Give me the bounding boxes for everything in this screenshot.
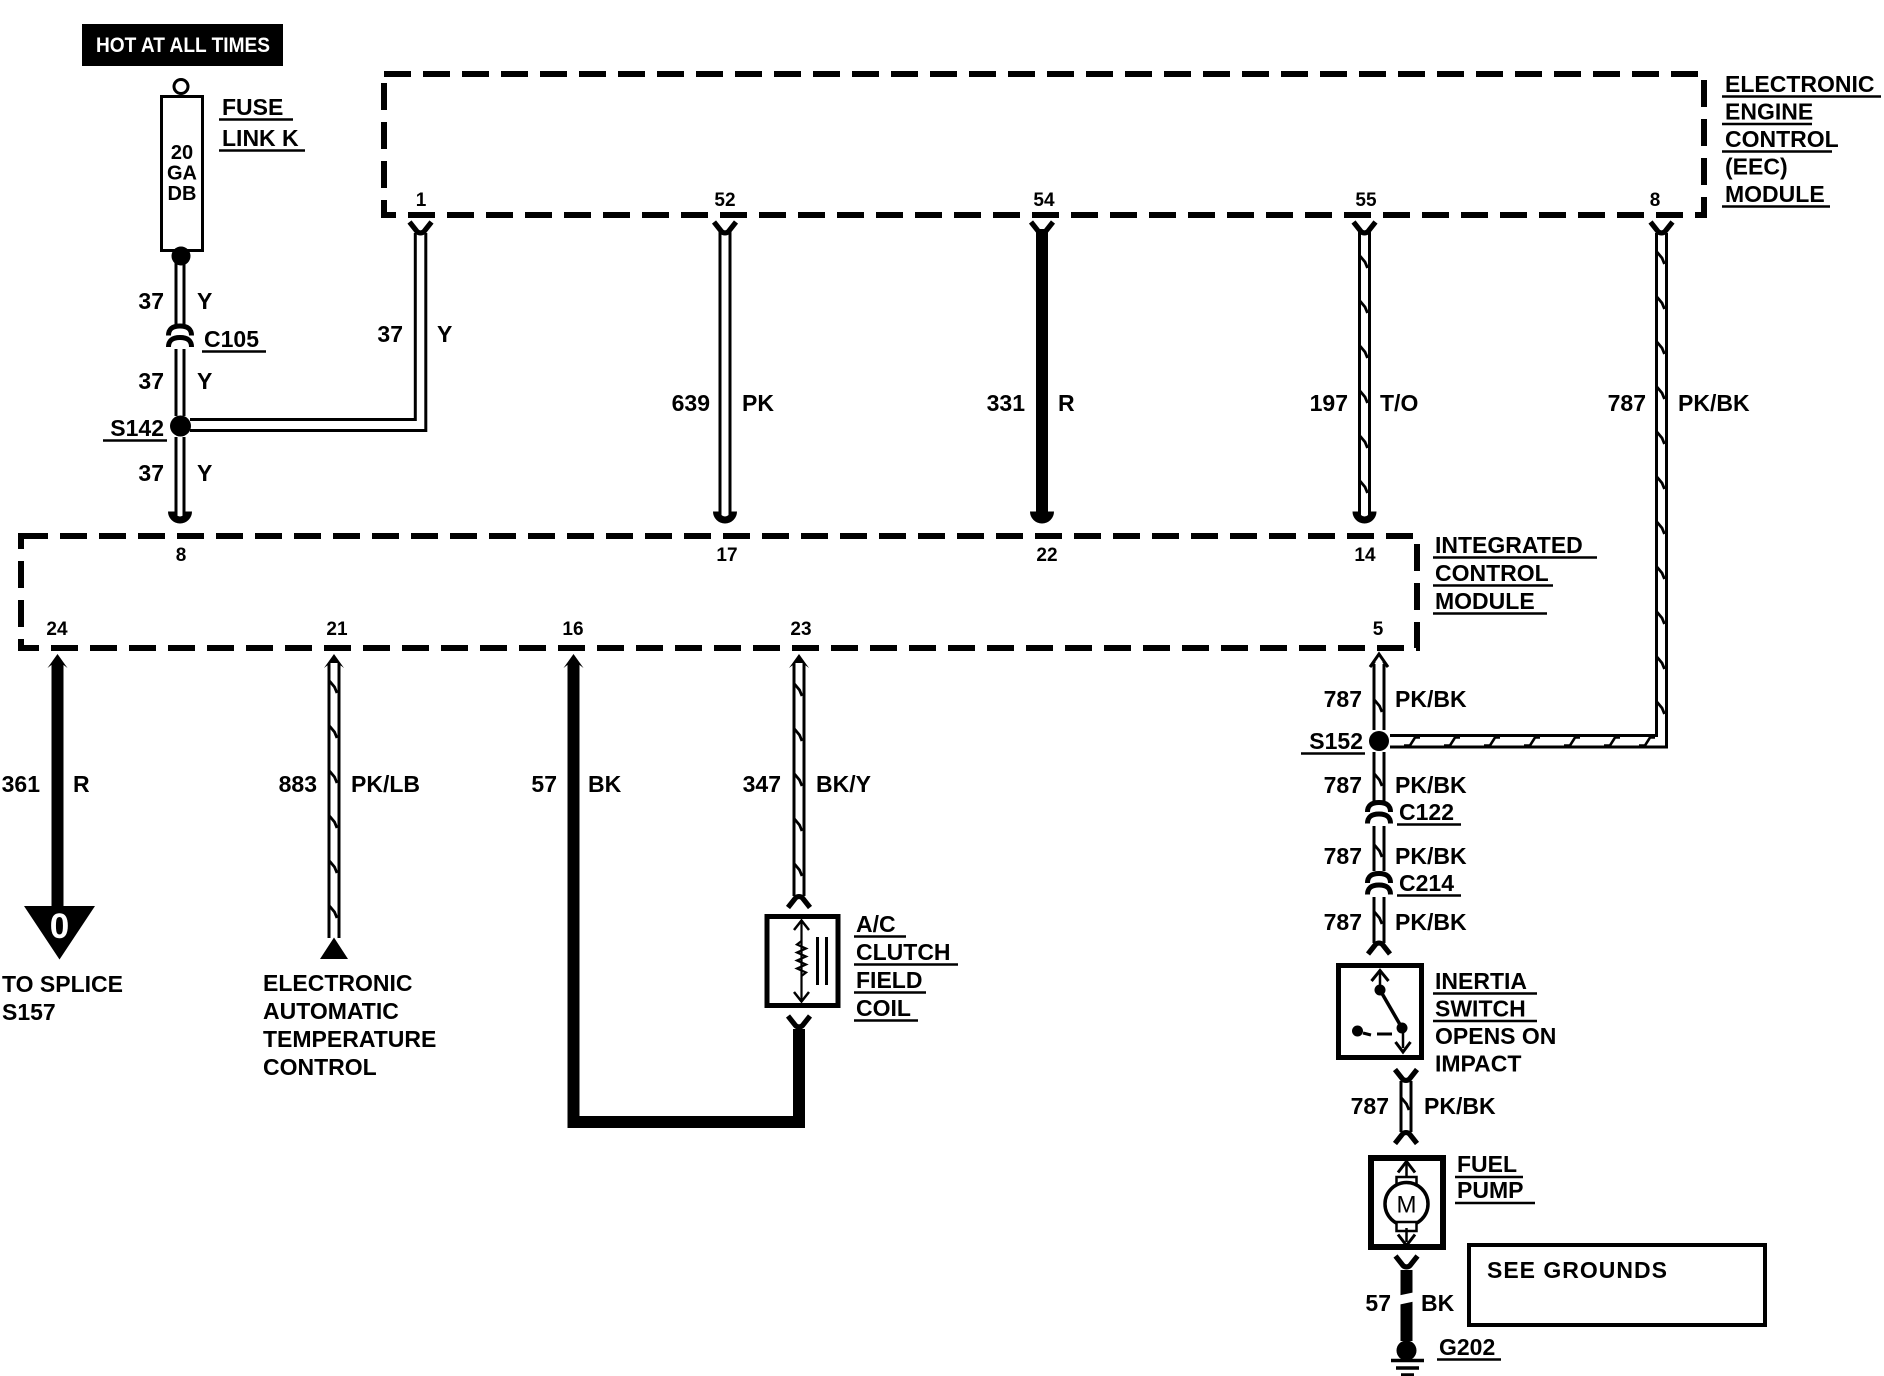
ground G202 bbox=[1391, 1341, 1424, 1376]
wire 639 PK EEC 52 to ICM 17 bbox=[720, 232, 730, 517]
svg-text:OPENS ON: OPENS ON bbox=[1435, 1023, 1556, 1049]
svg-text:PK/BK: PK/BK bbox=[1395, 686, 1467, 712]
label ELECTRONIC AUTOMATIC TEMPERATURE CONTROL bbox=[263, 970, 436, 1080]
svg-text:55: 55 bbox=[1355, 190, 1377, 211]
wire 787 PK/BK C214 to inertia switch bbox=[1374, 897, 1384, 943]
integrated control module dashed box bbox=[21, 536, 1417, 648]
connector C122 bbox=[1368, 803, 1391, 813]
svg-text:23: 23 bbox=[790, 619, 811, 640]
wire 883 PK/LB ICM 21 down bbox=[329, 663, 339, 938]
svg-text:PUMP: PUMP bbox=[1457, 1177, 1523, 1203]
svg-text:ELECTRONIC: ELECTRONIC bbox=[1725, 71, 1875, 97]
svg-text:BK/Y: BK/Y bbox=[816, 771, 871, 797]
svg-text:GA: GA bbox=[167, 163, 197, 185]
connector at fuel pump top bbox=[1395, 1133, 1417, 1144]
fuel pump bbox=[1371, 1158, 1443, 1247]
svg-text:TEMPERATURE: TEMPERATURE bbox=[263, 1026, 436, 1052]
svg-text:INERTIA: INERTIA bbox=[1435, 968, 1527, 994]
svg-text:1: 1 bbox=[416, 190, 427, 211]
svg-text:CONTROL: CONTROL bbox=[263, 1054, 377, 1080]
connector at fuel pump bottom bbox=[1396, 1256, 1418, 1267]
svg-text:MODULE: MODULE bbox=[1435, 588, 1535, 614]
svg-text:HOT AT ALL TIMES: HOT AT ALL TIMES bbox=[96, 34, 270, 57]
svg-text:C214: C214 bbox=[1399, 870, 1454, 896]
svg-text:(EEC): (EEC) bbox=[1725, 154, 1788, 180]
svg-text:PK: PK bbox=[742, 390, 774, 416]
terminal arrow at ICM pin 16 bbox=[564, 654, 584, 668]
svg-text:787: 787 bbox=[1324, 686, 1362, 712]
svg-text:5: 5 bbox=[1373, 619, 1384, 640]
wire 787 PK/BK EEC 8 to S152 bbox=[1390, 233, 1667, 747]
wire 787 PK/BK S152 to C122 bbox=[1374, 752, 1384, 801]
svg-text:MODULE: MODULE bbox=[1725, 181, 1825, 207]
connector at EEC pin 54 bbox=[1031, 222, 1053, 233]
wire 787 PK/BK C122 to C214 bbox=[1374, 826, 1384, 871]
svg-text:PK/BK: PK/BK bbox=[1678, 390, 1750, 416]
svg-text:57: 57 bbox=[1365, 1290, 1391, 1316]
HOT AT ALL TIMES banner bbox=[82, 24, 283, 66]
svg-text:347: 347 bbox=[743, 771, 781, 797]
connector at EEC pin 1 bbox=[410, 222, 432, 233]
label A/C CLUTCH FIELD COIL bbox=[854, 911, 958, 1021]
wire 37 Y S142 to ICM pin 8 bbox=[176, 437, 184, 517]
terminal arrow at ICM pin 23 bbox=[789, 654, 809, 668]
svg-text:LINK K: LINK K bbox=[222, 125, 299, 151]
label FUEL PUMP bbox=[1455, 1151, 1535, 1203]
svg-text:DB: DB bbox=[168, 183, 197, 205]
svg-text:639: 639 bbox=[672, 390, 710, 416]
connector at EEC pin 55 bbox=[1354, 222, 1376, 233]
svg-text:FIELD: FIELD bbox=[856, 967, 922, 993]
svg-text:197: 197 bbox=[1310, 390, 1348, 416]
wire 361 R ICM 24 down bbox=[52, 663, 64, 908]
svg-text:17: 17 bbox=[716, 545, 737, 566]
svg-text:331: 331 bbox=[987, 390, 1026, 416]
connector C214 bbox=[1368, 874, 1391, 884]
connector at A/C clutch coil bottom bbox=[788, 1016, 810, 1027]
wire 37 Y C105 to S142 bbox=[176, 349, 184, 416]
connector at ICM pin 8 bbox=[172, 512, 189, 521]
svg-text:FUSE: FUSE bbox=[222, 94, 283, 120]
svg-text:8: 8 bbox=[1650, 190, 1661, 211]
svg-text:COIL: COIL bbox=[856, 995, 911, 1021]
fuse link K body bbox=[162, 97, 203, 251]
svg-text:BK: BK bbox=[1421, 1290, 1455, 1316]
svg-text:R: R bbox=[1058, 390, 1075, 416]
wire 787 PK/BK inertia switch to fuel pump bbox=[1401, 1081, 1411, 1132]
wire 787 PK/BK ICM 5 to S152 bbox=[1374, 664, 1384, 730]
svg-text:52: 52 bbox=[714, 190, 735, 211]
wire 57 BK fuel pump to G202 bbox=[1396, 1270, 1416, 1341]
svg-text:57: 57 bbox=[531, 771, 557, 797]
svg-text:CONTROL: CONTROL bbox=[1435, 560, 1549, 586]
svg-text:883: 883 bbox=[279, 771, 317, 797]
svg-text:37: 37 bbox=[138, 460, 164, 486]
connector at A/C clutch coil top bbox=[788, 897, 810, 908]
svg-text:361: 361 bbox=[2, 771, 41, 797]
splice S142 bbox=[170, 416, 191, 437]
connector at EEC pin 8 bbox=[1651, 222, 1673, 233]
svg-text:37: 37 bbox=[138, 288, 164, 314]
connector at EEC pin 52 bbox=[714, 222, 736, 233]
svg-text:Y: Y bbox=[197, 460, 212, 486]
svg-text:S157: S157 bbox=[2, 999, 56, 1025]
svg-text:0: 0 bbox=[50, 907, 69, 946]
inertia switch bbox=[1339, 966, 1422, 1058]
svg-text:14: 14 bbox=[1354, 545, 1376, 566]
svg-text:TO SPLICE: TO SPLICE bbox=[2, 971, 123, 997]
svg-text:54: 54 bbox=[1033, 190, 1055, 211]
svg-text:37: 37 bbox=[138, 368, 164, 394]
svg-text:SWITCH: SWITCH bbox=[1435, 996, 1526, 1022]
svg-text:IMPACT: IMPACT bbox=[1435, 1051, 1521, 1077]
wire 37 Y fuse link to C105 bbox=[176, 258, 184, 326]
terminal arrow at ICM pin 5 bbox=[1370, 654, 1388, 667]
junction dot below fuse link bbox=[172, 247, 191, 266]
svg-text:16: 16 bbox=[562, 619, 583, 640]
svg-text:AUTOMATIC: AUTOMATIC bbox=[263, 998, 399, 1024]
svg-text:37: 37 bbox=[377, 321, 403, 347]
svg-text:A/C: A/C bbox=[856, 911, 896, 937]
svg-text:Y: Y bbox=[437, 321, 452, 347]
svg-text:G202: G202 bbox=[1439, 1334, 1495, 1360]
svg-text:787: 787 bbox=[1351, 1093, 1389, 1119]
svg-text:C105: C105 bbox=[204, 326, 259, 352]
svg-text:M: M bbox=[1397, 1192, 1417, 1219]
label INERTIA SWITCH OPENS ON IMPACT bbox=[1433, 968, 1556, 1077]
svg-text:PK/BK: PK/BK bbox=[1395, 843, 1467, 869]
svg-text:PK/BK: PK/BK bbox=[1395, 772, 1467, 798]
svg-text:FUEL: FUEL bbox=[1457, 1151, 1517, 1177]
svg-text:787: 787 bbox=[1324, 909, 1362, 935]
svg-text:24: 24 bbox=[46, 619, 68, 640]
svg-text:20: 20 bbox=[171, 142, 193, 164]
SEE GROUNDS note box bbox=[1469, 1245, 1765, 1325]
svg-text:INTEGRATED: INTEGRATED bbox=[1435, 532, 1583, 558]
svg-text:PK/BK: PK/BK bbox=[1395, 909, 1467, 935]
connector at inertia switch bottom bbox=[1395, 1070, 1417, 1081]
wire 37 Y S142 branch to EEC pin 1 bbox=[190, 233, 426, 431]
connector C105 bbox=[169, 326, 192, 336]
svg-text:S152: S152 bbox=[1309, 728, 1363, 754]
connector at inertia switch top bbox=[1368, 943, 1390, 954]
svg-text:CONTROL: CONTROL bbox=[1725, 126, 1839, 152]
svg-text:PK/LB: PK/LB bbox=[351, 771, 420, 797]
svg-text:8: 8 bbox=[176, 545, 187, 566]
connector at ICM pin 17 bbox=[717, 512, 734, 521]
fuse link K ring terminal bbox=[174, 80, 188, 94]
svg-text:Y: Y bbox=[197, 368, 212, 394]
svg-text:CLUTCH: CLUTCH bbox=[856, 939, 951, 965]
svg-text:787: 787 bbox=[1324, 772, 1362, 798]
connector at ICM pin 22 bbox=[1034, 512, 1051, 521]
svg-text:21: 21 bbox=[326, 619, 348, 640]
svg-text:BK: BK bbox=[588, 771, 622, 797]
svg-text:ENGINE: ENGINE bbox=[1725, 99, 1813, 125]
connector at ICM pin 14 bbox=[1356, 512, 1373, 521]
svg-text:R: R bbox=[73, 771, 90, 797]
label INTEGRATED CONTROL MODULE bbox=[1433, 532, 1597, 614]
terminal arrow at ICM pin 24 bbox=[48, 654, 68, 668]
svg-text:ELECTRONIC: ELECTRONIC bbox=[263, 970, 413, 996]
terminal arrow at ICM pin 21 bbox=[324, 654, 344, 668]
EEC module dashed box bbox=[384, 74, 1704, 215]
svg-text:SEE GROUNDS: SEE GROUNDS bbox=[1487, 1257, 1668, 1283]
wire 57 BK ICM 16 to A/C clutch field coil bbox=[574, 663, 800, 1122]
wire 331 R EEC 54 to ICM 22 bbox=[1036, 229, 1048, 517]
svg-text:T/O: T/O bbox=[1380, 390, 1418, 416]
svg-text:S142: S142 bbox=[110, 415, 164, 441]
svg-text:22: 22 bbox=[1036, 545, 1057, 566]
splice S152 bbox=[1369, 731, 1389, 751]
destination triangle to EATC bbox=[320, 938, 348, 960]
label ELECTRONIC ENGINE CONTROL (EEC) MODULE bbox=[1722, 71, 1881, 207]
svg-text:787: 787 bbox=[1608, 390, 1646, 416]
svg-text:C122: C122 bbox=[1399, 799, 1454, 825]
svg-text:787: 787 bbox=[1324, 843, 1362, 869]
wire 347 BK/Y ICM 23 to A/C clutch field coil bbox=[794, 663, 804, 896]
svg-text:Y: Y bbox=[197, 288, 212, 314]
svg-text:PK/BK: PK/BK bbox=[1424, 1093, 1496, 1119]
A/C clutch field coil bbox=[767, 917, 838, 1006]
label TO SPLICE S157 bbox=[2, 971, 123, 1025]
wire 197 T/O EEC 55 to ICM 14 bbox=[1360, 232, 1370, 517]
destination triangle to splice S157 bbox=[24, 906, 95, 960]
